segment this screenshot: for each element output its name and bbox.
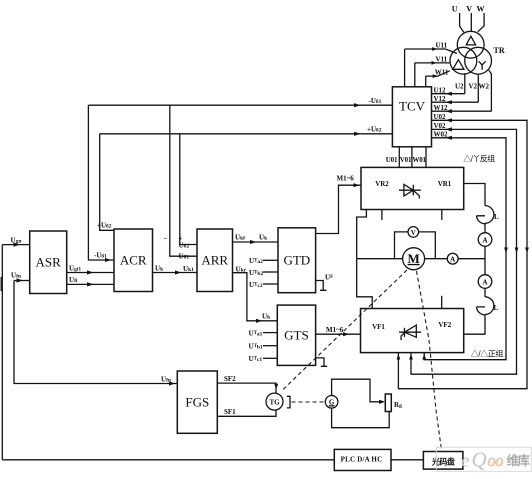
- svg-text:TG: TG: [269, 399, 280, 407]
- block optical encoder 光码盘: [423, 452, 463, 470]
- svg-text:PLC D/A HC: PLC D/A HC: [341, 456, 383, 464]
- wire Ufn rail down to FGS: [14, 281, 177, 384]
- svg-text:Rg: Rg: [394, 401, 402, 409]
- wire ammeter to right chain: [458, 258, 485, 260]
- wire Ugi1 ASR to ACR: [67, 272, 114, 274]
- svg-text:M1~6: M1~6: [337, 175, 355, 183]
- wire +Ub2 (long horizontal to TCV): [100, 133, 393, 135]
- svg-text:VF2: VF2: [438, 321, 451, 329]
- svg-text:Ukr: Ukr: [236, 265, 247, 273]
- svg-text:Ugn: Ugn: [11, 236, 22, 244]
- wire motor to bus: [357, 258, 403, 260]
- svg-text:W: W: [477, 5, 485, 14]
- wire U02 (to forward group, outer loop): [398, 120, 527, 388]
- wire U11: [405, 49, 457, 87]
- svg-text:U2: U2: [455, 83, 464, 91]
- wire A2 to L2: [484, 288, 486, 297]
- svg-text:−: −: [164, 235, 168, 243]
- VF top stub: [441, 296, 443, 309]
- svg-text:V12: V12: [434, 95, 447, 103]
- svg-text:U01: U01: [386, 156, 398, 164]
- resistor Rg: [385, 394, 391, 412]
- wire left rail from Ugn down to bottom: [1, 245, 3, 460]
- svg-text:A: A: [482, 237, 487, 245]
- svg-text:ASR: ASR: [36, 255, 62, 270]
- dashed shaft TG to G: [292, 401, 326, 403]
- svg-text:V2: V2: [469, 83, 478, 91]
- arrow up into VF bottom on W02 stub: [422, 354, 426, 360]
- svg-text:SF2: SF2: [224, 375, 236, 383]
- GTD sync terminal symbol UF: [316, 281, 327, 291]
- svg-text:W02: W02: [434, 130, 449, 138]
- voltmeter branch: [395, 232, 436, 259]
- wire M1~6 GTD to VR: [316, 185, 361, 233]
- svg-text:Uб1: Uб1: [179, 253, 190, 261]
- wire M1~6 GTS to VF: [316, 333, 361, 335]
- svg-text:+Uб2: +Uб2: [97, 222, 112, 230]
- block VF (forward thyristor bridge): [361, 309, 464, 353]
- voltmeter V: [408, 227, 419, 238]
- svg-text:W01: W01: [412, 156, 426, 164]
- ammeter A2: [478, 275, 492, 289]
- left page-edge artifact: [0, 277, 2, 291]
- block VR (reverse thyristor bridge): [361, 167, 464, 209]
- wire G loop bottom to Rg: [332, 408, 390, 428]
- svg-text:维库: 维库: [507, 453, 531, 468]
- wire V11: [415, 63, 451, 87]
- svg-text:A: A: [450, 256, 455, 264]
- svg-text:Uk: Uk: [259, 234, 268, 242]
- wire U input: [460, 13, 464, 32]
- svg-text:V: V: [466, 5, 472, 14]
- sync input stub UTc2: [263, 283, 278, 285]
- transformer TR: secondary circle wye: [465, 47, 492, 74]
- dashed shaft M to TG: [281, 270, 407, 392]
- svg-text:Uk: Uk: [155, 264, 164, 272]
- wire W input: [478, 13, 484, 32]
- svg-text:U11: U11: [436, 42, 448, 50]
- block FGS: [177, 371, 217, 433]
- wire V02 (middle loop): [411, 129, 517, 374]
- thyristor symbol in VF box (mirrored): [399, 325, 421, 340]
- wire Ukr ARR to GTS: [233, 273, 278, 321]
- wire -Ub1 drop to ARR: [170, 105, 197, 256]
- wire L1 to A1: [484, 223, 486, 232]
- svg-text:光码盘: 光码盘: [431, 457, 455, 467]
- VR bottom stub right: [441, 210, 443, 220]
- wire PLC to encoder: [391, 459, 423, 461]
- wire W12: [432, 110, 492, 112]
- svg-text:+Uб2: +Uб2: [367, 126, 382, 134]
- ammeter A1: [478, 233, 492, 247]
- delta symbol in secondary left: [453, 60, 464, 70]
- wire SF1 FGS to TG: [217, 410, 276, 416]
- svg-text:Ukf: Ukf: [235, 234, 245, 242]
- svg-text:V01: V01: [400, 156, 412, 164]
- svg-text:TR: TR: [494, 46, 505, 55]
- block GTS: [277, 305, 315, 365]
- sync input stub UTb2: [263, 271, 278, 273]
- generator G: [325, 396, 338, 409]
- svg-text:W2: W2: [479, 83, 490, 91]
- reactor L2: [477, 297, 494, 315]
- svg-text:GTD: GTD: [283, 253, 310, 268]
- svg-text:V11: V11: [436, 55, 448, 63]
- svg-text:oo: oo: [488, 451, 504, 470]
- sync input stub UTc1: [263, 357, 277, 359]
- wire -Ub1 (long horizontal to TCV): [88, 104, 392, 106]
- wire A1 to A2 through junction: [484, 246, 486, 274]
- svg-text:L: L: [494, 213, 499, 221]
- wire W02 (inner loop): [424, 138, 506, 360]
- svg-text:Ufn: Ufn: [161, 375, 171, 383]
- svg-text:GTS: GTS: [284, 328, 309, 343]
- wire G loop top to Rg wiper: [332, 379, 384, 402]
- svg-text:△/丫反组: △/丫反组: [463, 154, 495, 164]
- watermark frame: [436, 447, 531, 471]
- wire W11: [426, 71, 450, 87]
- svg-text:e: e: [461, 451, 469, 472]
- svg-text:SF1: SF1: [224, 408, 236, 416]
- wire V input: [470, 13, 472, 32]
- block ASR: [30, 231, 67, 294]
- svg-text:△/△正组: △/△正组: [471, 349, 504, 359]
- svg-text:W12: W12: [434, 104, 449, 112]
- block PLC D/A HC: [334, 449, 391, 470]
- svg-text:Uk: Uk: [262, 312, 271, 320]
- svg-text:-Uб1: -Uб1: [94, 252, 107, 260]
- sync input stub UTb1: [263, 345, 277, 347]
- wires U01 V01 W01 from TCV bottom to VR top: [399, 147, 426, 168]
- reactor L1: [477, 206, 494, 224]
- node U2 terminal: [464, 73, 466, 94]
- arrow down on W02 right vertical: [504, 248, 508, 254]
- wire Ukf ARR to GTD: [233, 241, 279, 243]
- svg-text:Ufi: Ufi: [69, 276, 78, 284]
- arrow up into VF bottom on V02 stub: [409, 354, 413, 360]
- TG coupling bracket: [287, 396, 290, 408]
- wire L2 to VF right: [464, 315, 485, 335]
- svg-text:W11: W11: [435, 69, 449, 77]
- svg-text:M: M: [407, 251, 419, 266]
- svg-text:FGS: FGS: [185, 395, 209, 410]
- transformer TR: primary circle (delta): [457, 31, 484, 58]
- wire Uk ACR to ARR: [153, 272, 198, 274]
- wire Ufn input to ASR: [14, 280, 30, 282]
- wire +Ub2 drop to ACR: [100, 134, 114, 231]
- svg-text:U12: U12: [434, 86, 447, 94]
- svg-text:Ufn: Ufn: [11, 272, 21, 280]
- svg-text:VR1: VR1: [438, 180, 452, 188]
- dashed shaft M to encoder: [417, 271, 442, 450]
- svg-text:TCV: TCV: [399, 99, 426, 114]
- delta symbol in primary: [466, 36, 475, 45]
- svg-text:L: L: [494, 304, 499, 312]
- thyristor symbol in VR box: [399, 184, 421, 198]
- wire bottom rail to PLC: [2, 459, 334, 461]
- svg-text:VF1: VF1: [372, 323, 385, 331]
- svg-text:U02: U02: [434, 113, 447, 121]
- sync input stub UTa2: [263, 259, 278, 261]
- wire +Ub2 drop to ARR: [180, 134, 197, 245]
- ammeter A (armature): [447, 253, 458, 264]
- svg-text:Q: Q: [472, 448, 487, 472]
- arrow up into VF bottom on U02 stub: [397, 354, 401, 360]
- wire VR right to chain: [464, 184, 485, 206]
- svg-text:Uб2: Uб2: [179, 242, 190, 250]
- svg-text:V: V: [411, 229, 416, 237]
- svg-text:ARR: ARR: [201, 253, 228, 268]
- tachogenerator TG: [266, 393, 283, 410]
- svg-text:-Uб1: -Uб1: [369, 97, 382, 105]
- wire Ugn input: [2, 244, 29, 246]
- svg-text:U: U: [452, 5, 458, 14]
- arrow down on V02 right vertical: [515, 248, 519, 254]
- wire SF2 FGS to TG: [217, 383, 276, 393]
- svg-text:A: A: [482, 279, 487, 287]
- sync input stub UTa1: [263, 332, 277, 334]
- arrow down on U02 right vertical: [525, 248, 529, 254]
- svg-text:VR2: VR2: [375, 180, 389, 188]
- wire M to ammeter: [425, 258, 448, 260]
- block TCV: [392, 87, 431, 147]
- GTS sync terminal symbol: [316, 358, 328, 366]
- armature bus VR to VF (left side): [357, 210, 373, 309]
- svg-text:Uk1: Uk1: [183, 265, 194, 273]
- svg-text:ACR: ACR: [120, 253, 147, 268]
- node V2 terminal: [477, 74, 479, 102]
- node W2 terminal: [489, 70, 492, 111]
- VR bottom stub left: [381, 210, 383, 220]
- motor M: [403, 248, 425, 270]
- block ACR: [114, 229, 153, 292]
- svg-text:Ugi1: Ugi1: [69, 264, 81, 272]
- svg-text:V02: V02: [434, 122, 447, 130]
- block GTD: [278, 228, 316, 293]
- transformer TR: secondary circle delta: [450, 47, 477, 74]
- wire -Ub1 drop to ACR: [88, 105, 114, 260]
- wire V12: [432, 101, 479, 103]
- block ARR: [197, 229, 233, 292]
- wye symbol in secondary right: [479, 61, 486, 69]
- wire U12: [432, 93, 465, 95]
- wire Ufi ASR to ACR: [67, 283, 114, 285]
